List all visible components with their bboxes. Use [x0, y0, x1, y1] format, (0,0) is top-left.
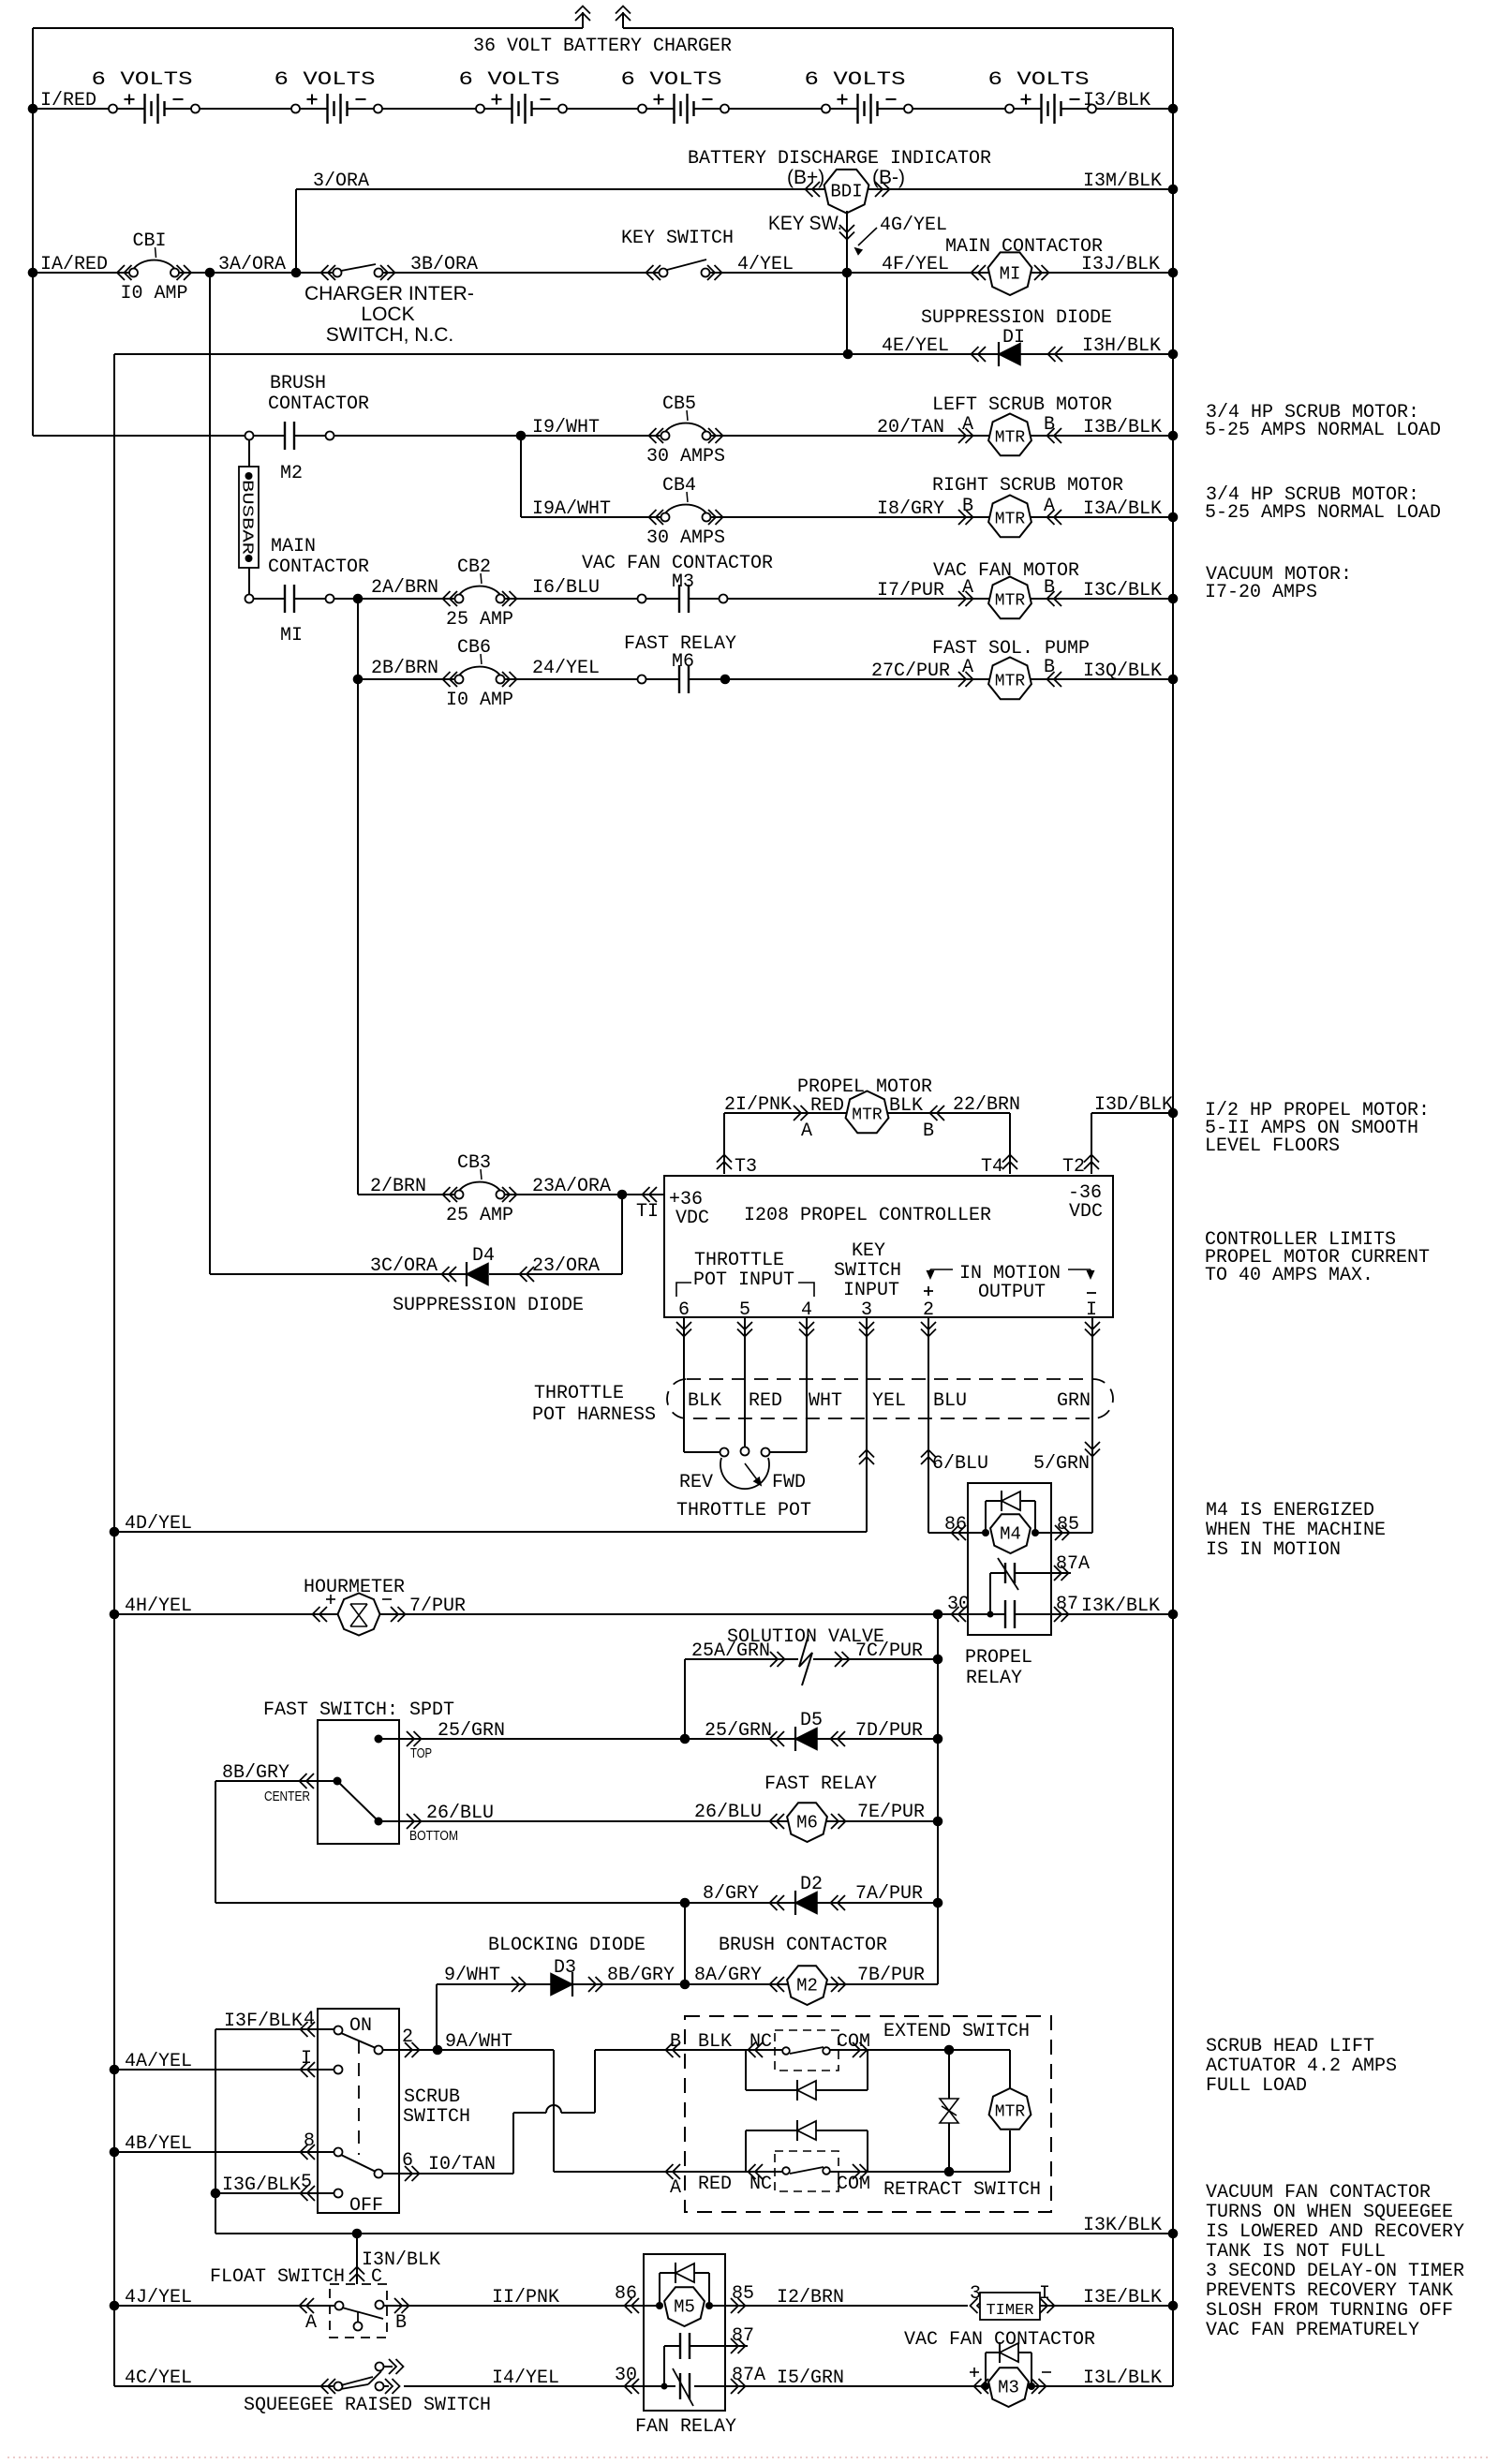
svg-text:MAIN: MAIN	[271, 536, 316, 557]
svg-text:A: A	[801, 1121, 812, 1142]
svg-text:30 AMPS: 30 AMPS	[646, 446, 725, 468]
svg-text:WHEN THE MACHINE: WHEN THE MACHINE	[1206, 1520, 1386, 1541]
node solution valve right junction	[933, 1655, 943, 1665]
svg-text:I0 AMP: I0 AMP	[120, 283, 187, 304]
svg-text:2I/PNK: 2I/PNK	[724, 1094, 792, 1116]
wire T1 drop	[621, 1195, 623, 1274]
node CB4 row right junction	[1168, 512, 1179, 523]
fast solution pump motor MTR	[958, 672, 966, 687]
left scrub motor MTR	[958, 428, 966, 443]
svg-text:SWITCH: SWITCH	[834, 1260, 901, 1282]
wire left border	[32, 28, 34, 436]
svg-text:I3B/BLK: I3B/BLK	[1083, 417, 1162, 438]
svg-text:BLOCKING DIODE: BLOCKING DIODE	[488, 1935, 646, 1956]
svg-text:4B/YEL: 4B/YEL	[125, 2133, 192, 2155]
svg-text:3 SECOND DELAY-ON TIMER: 3 SECOND DELAY-ON TIMER	[1206, 2261, 1464, 2282]
svg-text:86: 86	[944, 1514, 967, 1536]
svg-text:6 VOLTS: 6 VOLTS	[805, 69, 906, 91]
svg-text:25/GRN: 25/GRN	[438, 1720, 505, 1742]
relay M4 87A N.C. contact	[990, 1572, 1005, 1574]
svg-text:SLOSH FROM TURNING OFF: SLOSH FROM TURNING OFF	[1206, 2300, 1453, 2322]
svg-text:(B+): (B+)	[787, 167, 824, 188]
busbar	[248, 439, 250, 467]
svg-text:M4: M4	[1000, 1524, 1021, 1545]
svg-text:T2: T2	[1062, 1156, 1085, 1178]
svg-text:D5: D5	[800, 1710, 823, 1731]
svg-text:KEY SWITCH: KEY SWITCH	[621, 228, 734, 249]
svg-text:BRUSH CONTACTOR: BRUSH CONTACTOR	[719, 1935, 887, 1956]
svg-text:CONTACTOR: CONTACTOR	[268, 393, 369, 415]
svg-text:I3L/BLK: I3L/BLK	[1083, 2368, 1162, 2389]
svg-text:30 AMPS: 30 AMPS	[646, 527, 725, 549]
svg-text:4A/YEL: 4A/YEL	[125, 2051, 192, 2072]
svg-text:FAST SWITCH: SPDT: FAST SWITCH: SPDT	[263, 1700, 454, 1721]
op-box 1208 propel controller	[664, 1176, 1113, 1317]
wire top border of battery charger box	[33, 27, 583, 29]
node timer row right junction	[1168, 2301, 1179, 2311]
svg-text:6 VOLTS: 6 VOLTS	[988, 69, 1090, 91]
svg-text:VDC: VDC	[675, 1208, 709, 1229]
svg-text:KEY SW.: KEY SW.	[768, 213, 842, 234]
relay coil M4	[982, 1529, 989, 1536]
svg-text:BRUSH: BRUSH	[270, 373, 326, 394]
float switch poles	[335, 2302, 344, 2310]
svg-text:BLK: BLK	[688, 1390, 721, 1412]
svg-text:I6/BLU: I6/BLU	[532, 577, 600, 599]
node 2A junction	[353, 594, 364, 604]
wire 13F/BLK row	[215, 2028, 334, 2030]
wire brush contactor row	[33, 435, 285, 437]
svg-text:IS IN MOTION: IS IN MOTION	[1206, 1539, 1341, 1561]
node D1 row junction	[843, 349, 853, 360]
svg-text:M5: M5	[674, 2297, 695, 2318]
svg-text:INPUT: INPUT	[843, 1280, 899, 1301]
svg-text:87: 87	[732, 2325, 754, 2347]
wire 26/BLU row	[378, 1820, 938, 1822]
svg-text:CHARGER INTER-: CHARGER INTER-	[304, 283, 474, 304]
svg-text:M2: M2	[280, 463, 303, 484]
svg-text:8/GRY: 8/GRY	[703, 1883, 759, 1905]
svg-text:MI: MI	[1000, 264, 1021, 285]
svg-text:RELAY: RELAY	[966, 1668, 1022, 1689]
wire fast relay row	[358, 678, 459, 680]
wire 3A rail	[209, 273, 211, 1274]
in motion arrow left	[930, 1269, 953, 1270]
svg-text:M6: M6	[672, 651, 694, 673]
wire pin3 key switch input	[866, 1317, 868, 1532]
svg-text:I3G/BLK: I3G/BLK	[222, 2175, 301, 2196]
svg-text:86: 86	[615, 2283, 637, 2305]
node 4D junction	[110, 1527, 120, 1537]
wire CB3 row	[358, 1194, 459, 1195]
propel motor MTR	[794, 1106, 801, 1121]
wire pin2 to M4 coil 86	[928, 1532, 986, 1534]
svg-text:SUPPRESSION DIODE: SUPPRESSION DIODE	[921, 307, 1112, 329]
svg-text:I8/GRY: I8/GRY	[877, 498, 944, 520]
svg-text:M2: M2	[796, 1976, 818, 1996]
circuit breaker CB2 25 AMP	[455, 595, 464, 603]
scrub switch pole 1	[334, 2066, 343, 2074]
svg-text:8B/GRY: 8B/GRY	[222, 1762, 289, 1784]
svg-text:I3Q/BLK: I3Q/BLK	[1083, 661, 1162, 682]
actuator dashed box	[685, 2016, 1051, 2212]
right scrub motor MTR	[958, 510, 966, 525]
svg-text:A: A	[670, 2177, 681, 2199]
wire M5 85 output	[709, 2305, 968, 2307]
key switch	[646, 265, 654, 280]
wire D4 row	[210, 1273, 467, 1275]
node battery row right junction	[1168, 104, 1179, 114]
svg-text:I0/TAN: I0/TAN	[428, 2154, 496, 2175]
suppression diode across M3 coil	[985, 2353, 987, 2386]
relay box M4 propel relay	[968, 1483, 1051, 1635]
wire 11/PNK row	[383, 2305, 660, 2307]
relay M4 30-87 contact	[1004, 1600, 1006, 1628]
solution valve symbol	[799, 1635, 812, 1685]
node hourmeter row right junction	[1168, 1610, 1179, 1620]
svg-text:VDC: VDC	[1069, 1201, 1103, 1223]
scrub switch OFF pole	[334, 2189, 343, 2198]
svg-text:FAST RELAY: FAST RELAY	[764, 1774, 877, 1795]
fast relay contact M6	[638, 675, 646, 684]
wire right border	[1172, 28, 1174, 2386]
svg-text:B: B	[395, 2312, 407, 2334]
relay coil M5	[656, 2302, 663, 2309]
svg-text:RETRACT SWITCH: RETRACT SWITCH	[883, 2179, 1041, 2201]
svg-text:87: 87	[1056, 1594, 1078, 1615]
TVS suppressor	[948, 2050, 950, 2099]
svg-text:FAN RELAY: FAN RELAY	[635, 2416, 736, 2438]
in motion arrow right	[1068, 1269, 1091, 1270]
wire extend B feed	[595, 2049, 685, 2051]
svg-text:4F/YEL: 4F/YEL	[882, 254, 949, 275]
wire 13G/BLK row	[215, 2192, 334, 2194]
wire 13F-13G rail	[215, 2029, 216, 2234]
svg-text:COM: COM	[837, 2174, 870, 2195]
svg-text:4E/YEL: 4E/YEL	[882, 335, 949, 357]
svg-text:MTR: MTR	[995, 429, 1026, 448]
svg-text:SWITCH, N.C.: SWITCH, N.C.	[326, 324, 454, 346]
wire 14/YEL row	[404, 2385, 664, 2387]
svg-text:CB3: CB3	[457, 1152, 491, 1174]
wire left rail x=122	[113, 354, 115, 2386]
svg-text:MAIN CONTACTOR: MAIN CONTACTOR	[945, 236, 1103, 258]
scrub switch pole 8	[334, 2148, 343, 2157]
diode D1	[998, 342, 1000, 366]
svg-text:I3J/BLK: I3J/BLK	[1081, 254, 1160, 275]
wire M4 87A stub	[989, 1573, 991, 1614]
svg-text:FAST SOL. PUMP: FAST SOL. PUMP	[932, 638, 1090, 660]
svg-text:FWD: FWD	[772, 1472, 806, 1493]
relay M5 87 contact	[664, 2345, 680, 2347]
svg-text:RIGHT SCRUB MOTOR: RIGHT SCRUB MOTOR	[932, 475, 1123, 497]
squeegee raised switch	[334, 2382, 343, 2391]
node 4J junction	[110, 2301, 120, 2311]
label minus M3	[1042, 2371, 1051, 2373]
svg-text:YEL: YEL	[872, 1390, 906, 1412]
svg-text:3A/ORA: 3A/ORA	[218, 254, 286, 275]
svg-text:THROTTLE POT: THROTTLE POT	[676, 1500, 811, 1521]
wire 4J/YEL row	[114, 2305, 335, 2307]
circuit breaker CB6 10 AMP	[455, 675, 464, 684]
main contactor coil M1	[972, 265, 979, 280]
svg-text:I7/PUR: I7/PUR	[877, 580, 944, 601]
circuit breaker CB3 25 AMP	[455, 1191, 464, 1199]
brush contactor contact M2	[245, 432, 254, 440]
svg-text:A: A	[305, 2312, 317, 2334]
wire pin6 to throttle pot	[683, 1317, 685, 1452]
circuit breaker CB5 30 AMPS	[661, 432, 670, 440]
charger interlock switch N.C.	[321, 265, 329, 280]
wire pin5 to throttle pot	[744, 1317, 746, 1448]
svg-text:IS LOWERED AND RECOVERY: IS LOWERED AND RECOVERY	[1206, 2221, 1464, 2243]
wire 10/TAN row	[382, 2173, 513, 2175]
charger connection arrow left	[582, 12, 584, 28]
terminal T1 input	[622, 1194, 664, 1195]
wire 4A/YEL row	[114, 2069, 334, 2071]
wire propel motor row	[724, 1112, 1010, 1114]
svg-text:CB4: CB4	[662, 475, 696, 497]
svg-text:TANK IS NOT FULL: TANK IS NOT FULL	[1206, 2241, 1386, 2263]
svg-text:I3E/BLK: I3E/BLK	[1083, 2287, 1162, 2308]
svg-text:CB5: CB5	[662, 393, 696, 415]
svg-text:7B/PUR: 7B/PUR	[857, 1965, 925, 1986]
fast switch poles	[375, 1735, 383, 1744]
wire retract switch row	[685, 2171, 782, 2173]
svg-text:TURNS ON WHEN SQUEEGEE: TURNS ON WHEN SQUEEGEE	[1206, 2202, 1453, 2223]
svg-text:7A/PUR: 7A/PUR	[855, 1883, 923, 1905]
wire T3 riser	[723, 1113, 725, 1174]
bracket throttle pot input	[676, 1283, 691, 1297]
svg-text:I3M/BLK: I3M/BLK	[1083, 171, 1162, 192]
svg-text:LOCK: LOCK	[361, 304, 414, 325]
svg-text:RED: RED	[749, 1390, 782, 1412]
svg-text:D2: D2	[800, 1874, 823, 1895]
node 4B junction	[110, 2147, 120, 2158]
extend bypass diode	[745, 2050, 747, 2090]
battery B1 6 VOLTS	[109, 105, 117, 113]
node 8B/GRY junction	[680, 1980, 690, 1990]
wire pin4 to throttle pot	[806, 1317, 808, 1452]
svg-text:BOTTOM: BOTTOM	[409, 1828, 458, 1844]
svg-text:3C/ORA: 3C/ORA	[370, 1255, 438, 1277]
svg-text:WHT: WHT	[809, 1390, 842, 1412]
node 13K right junction	[1168, 2229, 1179, 2239]
svg-text:I0 AMP: I0 AMP	[446, 690, 513, 711]
svg-text:5/GRN: 5/GRN	[1033, 1453, 1090, 1475]
svg-text:B: B	[1044, 414, 1055, 436]
svg-text:II/PNK: II/PNK	[492, 2287, 559, 2308]
svg-text:PREVENTS RECOVERY TANK: PREVENTS RECOVERY TANK	[1206, 2280, 1453, 2302]
wire 10/TAN riser	[512, 2113, 514, 2174]
retract limit switch	[775, 2151, 839, 2191]
wire 9A to retract riser	[553, 2050, 555, 2172]
node retract junction	[944, 2167, 955, 2177]
svg-text:SCRUB: SCRUB	[404, 2086, 460, 2108]
brush contactor coil M2	[770, 1977, 778, 1992]
wire pin2 in-motion +	[928, 1317, 929, 1533]
svg-text:BUSBAR: BUSBAR	[238, 480, 256, 555]
wire 9/WHT D3 row	[437, 1983, 938, 1985]
wire 4B/YEL row	[114, 2151, 334, 2153]
svg-text:SQUEEGEE RAISED SWITCH: SQUEEGEE RAISED SWITCH	[244, 2395, 491, 2416]
node D1 row right junction	[1168, 349, 1179, 360]
node 19/WHT branch junction	[516, 431, 527, 441]
svg-text:7C/PUR: 7C/PUR	[855, 1640, 923, 1662]
svg-text:I3H/BLK: I3H/BLK	[1082, 335, 1161, 357]
suppression diode across M5 coil	[659, 2273, 660, 2306]
svg-text:4J/YEL: 4J/YEL	[125, 2287, 192, 2308]
svg-text:MTR: MTR	[995, 2103, 1026, 2122]
svg-text:9/WHT: 9/WHT	[444, 1965, 500, 1986]
svg-text:I7-20 AMPS: I7-20 AMPS	[1205, 582, 1317, 603]
vac fan contactor coil M3	[970, 2371, 979, 2373]
diode D5	[770, 1731, 778, 1746]
diode D2	[770, 1895, 778, 1910]
svg-text:9A/WHT: 9A/WHT	[445, 2031, 512, 2053]
node T1 junction	[617, 1190, 628, 1200]
wire 4D/YEL row	[114, 1531, 867, 1533]
wire timer to right border	[1040, 2305, 1173, 2307]
svg-text:MI: MI	[280, 625, 303, 646]
svg-text:MTR: MTR	[995, 592, 1026, 611]
svg-text:3/ORA: 3/ORA	[313, 171, 369, 192]
node 3A/ORA junction	[205, 268, 215, 278]
svg-text:I4/YEL: I4/YEL	[492, 2368, 559, 2389]
svg-text:DI: DI	[1002, 327, 1025, 349]
node 4A junction	[110, 2065, 120, 2075]
svg-text:8A/GRY: 8A/GRY	[694, 1965, 762, 1986]
svg-text:(B-): (B-)	[872, 167, 905, 188]
battery B3 6 VOLTS	[476, 105, 484, 113]
svg-text:CENTER: CENTER	[264, 1789, 310, 1804]
wire key row to D1 row vertical	[846, 273, 848, 354]
switch box fast switch	[318, 1720, 399, 1844]
svg-text:D4: D4	[472, 1245, 495, 1267]
node charger interlock junction	[291, 268, 302, 278]
throttle pot	[720, 1448, 729, 1457]
svg-text:I9A/WHT: I9A/WHT	[532, 498, 611, 520]
svg-text:6/BLU: 6/BLU	[932, 1453, 988, 1475]
svg-text:5-25 AMPS NORMAL LOAD: 5-25 AMPS NORMAL LOAD	[1205, 420, 1441, 441]
wire retract A feed	[554, 2171, 685, 2173]
svg-text:CB6: CB6	[457, 637, 491, 659]
wire extend switch row	[685, 2049, 782, 2051]
svg-text:8B/GRY: 8B/GRY	[607, 1965, 675, 1986]
svg-text:I3K/BLK: I3K/BLK	[1083, 2215, 1162, 2236]
svg-text:VACUUM FAN CONTACTOR: VACUUM FAN CONTACTOR	[1206, 2182, 1431, 2204]
node 4H junction	[110, 1610, 120, 1620]
svg-text:MTR: MTR	[852, 1106, 883, 1125]
wire T2 to right border	[1091, 1112, 1173, 1114]
wire D1 suppression row	[114, 353, 1173, 355]
svg-text:FLOAT SWITCH: FLOAT SWITCH	[210, 2266, 345, 2288]
wire M3 to right border	[1031, 2385, 1173, 2387]
wire 10/TAN cross with hop	[513, 2112, 546, 2114]
svg-text:26/BLU: 26/BLU	[694, 1802, 762, 1823]
circuit breaker CB4 30 AMPS	[661, 513, 670, 522]
node BDI row right junction	[1168, 185, 1179, 195]
wire 12/BRN to timer	[725, 2305, 968, 2307]
svg-text:THROTTLE: THROTTLE	[694, 1250, 784, 1271]
wire 25 GRN branch vertical upper	[684, 1659, 686, 1739]
wire vac fan row	[249, 598, 285, 600]
wire M4 85 to pin1 wire	[1035, 1532, 1092, 1534]
svg-text:25 AMP: 25 AMP	[446, 609, 513, 631]
battery B6 6 VOLTS	[1005, 105, 1014, 113]
wire 3/ORA vertical	[295, 189, 297, 273]
svg-text:EXTEND SWITCH: EXTEND SWITCH	[883, 2021, 1030, 2042]
svg-text:BDI: BDI	[830, 182, 862, 202]
scrub switch mechanical link dashed	[358, 2041, 360, 2155]
svg-text:B: B	[923, 1121, 934, 1142]
wire 8 GRY vertical to M2 row	[684, 1903, 686, 1984]
terminal T3 arrow	[717, 1155, 732, 1163]
node D5 right junction	[933, 1734, 943, 1744]
node 25/GRN branch junction	[680, 1734, 690, 1744]
svg-text:ON: ON	[349, 2015, 372, 2037]
node key row centre junction	[842, 268, 853, 278]
battery B4 6 VOLTS	[638, 105, 646, 113]
node 8/GRY branch junction	[680, 1898, 690, 1908]
actuator motor MTR	[1009, 2050, 1011, 2089]
svg-text:23A/ORA: 23A/ORA	[532, 1176, 611, 1197]
svg-text:POT INPUT: POT INPUT	[693, 1269, 794, 1291]
svg-text:85: 85	[1057, 1514, 1079, 1536]
svg-text:CB2: CB2	[457, 557, 491, 578]
battery discharge indicator BDI	[806, 182, 813, 197]
svg-text:TIMER: TIMER	[986, 2302, 1033, 2320]
wire BDI key-switch sense vertical	[846, 211, 848, 273]
node M6 coil right junction	[933, 1817, 943, 1827]
vac fan motor MTR	[958, 591, 966, 606]
svg-text:IA/RED: IA/RED	[40, 254, 108, 275]
wire solution valve row	[685, 1658, 798, 1660]
svg-text:LEFT SCRUB MOTOR: LEFT SCRUB MOTOR	[932, 394, 1112, 416]
svg-text:BATTERY DISCHARGE INDICATOR: BATTERY DISCHARGE INDICATOR	[688, 148, 991, 170]
svg-text:4C/YEL: 4C/YEL	[125, 2368, 192, 2389]
svg-text:CONTACTOR: CONTACTOR	[268, 557, 369, 578]
svg-text:7E/PUR: 7E/PUR	[857, 1802, 925, 1823]
node extend junction	[944, 2045, 955, 2056]
svg-text:I: I	[1039, 2283, 1050, 2305]
svg-text:8: 8	[304, 2130, 315, 2152]
switch box scrub switch	[318, 2009, 399, 2213]
svg-text:BLU: BLU	[933, 1390, 967, 1412]
svg-text:M6: M6	[796, 1813, 818, 1833]
svg-text:THROTTLE: THROTTLE	[534, 1383, 624, 1404]
node propel relay 30 junction	[933, 1610, 943, 1620]
svg-text:7/PUR: 7/PUR	[409, 1596, 466, 1617]
svg-text:3B/ORA: 3B/ORA	[410, 254, 478, 275]
svg-text:26/BLU: 26/BLU	[426, 1803, 494, 1824]
wire 7-PUR rail vertical	[937, 1614, 939, 1984]
wire 4H hourmeter row	[114, 1613, 1005, 1615]
svg-text:M3: M3	[672, 571, 694, 593]
svg-text:CBI: CBI	[132, 230, 166, 252]
node D2 right junction	[933, 1898, 943, 1908]
wire T4 riser	[1009, 1113, 1011, 1174]
svg-text:VAC FAN PREMATURELY: VAC FAN PREMATURELY	[1206, 2320, 1419, 2341]
retract bypass diode	[745, 2130, 747, 2172]
svg-text:I9/WHT: I9/WHT	[532, 417, 600, 438]
wire 19A branch vertical	[520, 436, 522, 517]
svg-text:MTR: MTR	[995, 511, 1026, 529]
svg-text:2/BRN: 2/BRN	[370, 1176, 426, 1197]
fast relay coil M6	[770, 1814, 778, 1829]
node fast sol row right junction	[1168, 675, 1179, 685]
svg-text:SWITCH: SWITCH	[403, 2106, 470, 2128]
